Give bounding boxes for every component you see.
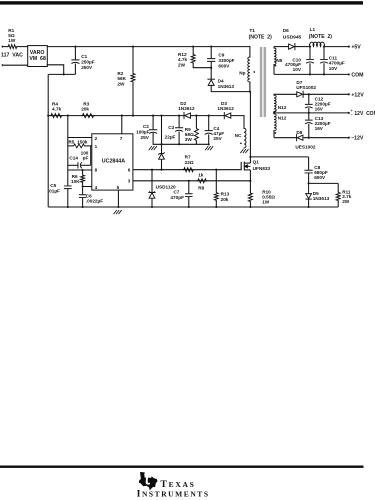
svg-text:470pF: 470pF xyxy=(170,195,184,200)
svg-text:C1: C1 xyxy=(81,54,87,59)
svg-text:R2: R2 xyxy=(117,71,123,76)
svg-text:250V: 250V xyxy=(81,65,93,70)
svg-text:1: 1 xyxy=(95,144,98,149)
resistor R10 xyxy=(248,192,252,202)
wire C1 upper xyxy=(74,47,76,60)
wire C8 to R11 xyxy=(309,182,339,184)
wire C2 upper xyxy=(152,116,154,130)
svg-text:1W: 1W xyxy=(262,199,270,204)
svg-text:–12V: –12V xyxy=(351,136,364,142)
wire C2 lower xyxy=(153,134,209,145)
capacitor C12 xyxy=(308,94,310,104)
svg-text:100µF: 100µF xyxy=(136,129,150,134)
core T1 bars xyxy=(260,47,263,117)
junction snubber tap xyxy=(249,156,251,158)
svg-text:C5: C5 xyxy=(50,183,56,188)
svg-text:C2: C2 xyxy=(143,124,149,129)
wire 12V COM rail xyxy=(274,112,349,114)
svg-text:COM: COM xyxy=(351,72,363,78)
wire bottom-left node xyxy=(48,73,75,75)
svg-text:N12: N12 xyxy=(278,105,287,110)
wire D6 to L1 xyxy=(295,46,310,48)
polarity dot N5 xyxy=(275,65,277,67)
junction C3 bottom xyxy=(178,143,180,145)
junction R9 top xyxy=(195,115,197,117)
wire AC input bottom xyxy=(3,64,28,66)
winding N5 xyxy=(273,47,275,48)
svg-text:56K: 56K xyxy=(117,76,126,81)
junction C11 bottom xyxy=(323,73,325,75)
transistor Q1 xyxy=(240,162,242,170)
wire D4 lower xyxy=(211,85,250,91)
wire ground rail xyxy=(48,206,338,208)
junction C10 bottom xyxy=(309,73,311,75)
svg-text:Np: Np xyxy=(239,71,245,76)
winding N12 upper xyxy=(273,93,275,96)
svg-text:1N3613: 1N3613 xyxy=(218,84,235,89)
terminal 12V COM xyxy=(348,112,350,114)
wire R10 upper xyxy=(249,181,251,192)
capacitor C8 xyxy=(305,170,312,173)
capacitor C9 xyxy=(208,59,215,62)
capacitor C13 xyxy=(308,113,310,120)
capacitor C10 xyxy=(309,47,311,60)
svg-text:(NOTE 2): (NOTE 2) xyxy=(249,35,273,41)
diode D3 xyxy=(223,113,225,119)
wire R11 upper xyxy=(337,183,339,191)
resistor R12 xyxy=(191,54,195,64)
resistor R13 xyxy=(215,170,217,192)
junction C8 bottom xyxy=(308,182,310,184)
svg-text:VM 68: VM 68 xyxy=(29,56,46,62)
wire L1 to +5V xyxy=(324,46,349,48)
svg-text:5: 5 xyxy=(117,185,120,190)
junction C6 gnd xyxy=(82,206,84,208)
junction pin5 gnd xyxy=(117,206,119,208)
svg-text:3300pF: 3300pF xyxy=(218,58,234,63)
capacitor C11 xyxy=(323,47,325,60)
junction C12 top xyxy=(308,93,310,95)
wire pin2 xyxy=(68,137,92,139)
junction USD1120 gnd xyxy=(151,206,153,208)
junction R2 top xyxy=(132,46,134,48)
svg-text:600V: 600V xyxy=(314,175,326,180)
polarity dot N12 upper xyxy=(275,110,277,112)
svg-text:N5: N5 xyxy=(276,58,282,63)
wire R2 lower xyxy=(132,83,134,116)
junction USD1120 top xyxy=(151,169,153,171)
wire C4 lower xyxy=(208,134,210,144)
svg-text:25V: 25V xyxy=(213,136,222,141)
capacitor C6 xyxy=(82,187,84,195)
resistor R2 xyxy=(131,73,135,83)
wire drain line xyxy=(249,92,251,164)
svg-text:R13: R13 xyxy=(221,191,230,196)
wire zener upper xyxy=(161,116,163,154)
svg-text:.0022µF: .0022µF xyxy=(86,199,103,204)
junction C4 top xyxy=(208,115,210,117)
junction primary bottom node xyxy=(249,91,251,93)
ground main rail xyxy=(114,210,122,213)
svg-text:R12: R12 xyxy=(178,52,187,57)
svg-text:117 VAC: 117 VAC xyxy=(1,53,23,59)
wire R12 lower xyxy=(193,64,211,68)
wire C9 upper xyxy=(210,47,212,59)
winding T1 primary Np xyxy=(248,57,250,82)
svg-text:12V COM: 12V COM xyxy=(354,111,375,117)
svg-text:4.7k: 4.7k xyxy=(52,106,62,111)
svg-text:USD945: USD945 xyxy=(283,35,302,41)
junction R2 bottom xyxy=(132,115,134,117)
junction R6 top xyxy=(82,169,84,171)
svg-text:2W: 2W xyxy=(342,199,350,204)
svg-text:TEXAS: TEXAS xyxy=(160,479,195,490)
capacitor C5 xyxy=(67,170,69,186)
junction D5 gnd xyxy=(308,206,310,208)
wire VM68 bottom output xyxy=(47,65,63,75)
wire C14 right vertical xyxy=(90,146,92,165)
resistor R5 xyxy=(68,145,73,147)
svg-text:2W: 2W xyxy=(117,82,125,87)
wire D7 to +12V xyxy=(303,93,348,95)
resistor R8 xyxy=(197,179,207,183)
polarity dot NC xyxy=(240,142,242,144)
wire comp node vertical xyxy=(67,116,69,170)
svg-text:R5 150k: R5 150k xyxy=(68,139,87,144)
junction zener tap xyxy=(160,115,162,117)
wire C3 lower xyxy=(178,132,180,145)
svg-text:10V: 10V xyxy=(293,67,302,72)
terminal +12V xyxy=(348,93,350,95)
svg-text:R8: R8 xyxy=(198,185,204,190)
svg-text:(NOTE 2): (NOTE 2) xyxy=(309,34,333,40)
svg-text:UFN833: UFN833 xyxy=(253,166,271,171)
svg-text:1N3612: 1N3612 xyxy=(217,106,234,111)
svg-text:2W: 2W xyxy=(178,63,186,68)
svg-text:D6: D6 xyxy=(283,28,289,33)
wire feedback rail xyxy=(48,115,184,117)
wire pin7 xyxy=(121,116,123,134)
svg-text:UES1002: UES1002 xyxy=(295,144,315,149)
diode D7 xyxy=(297,92,303,97)
svg-text:250µF: 250µF xyxy=(81,60,95,65)
resistor R6 xyxy=(82,170,84,175)
wire AC input top xyxy=(3,46,8,48)
svg-text:N12: N12 xyxy=(278,115,287,120)
wire left rail xyxy=(47,74,49,207)
wire C4 upper xyxy=(208,116,210,131)
resistor R3 xyxy=(82,114,95,118)
svg-text:.01µF: .01µF xyxy=(48,189,60,194)
wire zener lower xyxy=(161,159,163,170)
wire R9 lower xyxy=(195,141,197,144)
junction VM68 bottom node xyxy=(63,73,65,75)
svg-text:C3: C3 xyxy=(168,125,174,130)
junction R6 bottom xyxy=(82,185,84,187)
wire rail to NC xyxy=(231,116,244,129)
capacitor C7 xyxy=(188,181,190,194)
zener diode VR1 xyxy=(159,153,165,155)
resistor R7 xyxy=(183,168,194,172)
svg-text:D4: D4 xyxy=(218,78,224,83)
junction pin7 tap xyxy=(121,115,123,117)
svg-text:3W: 3W xyxy=(185,137,193,142)
wire R10 lower xyxy=(249,202,251,207)
diode D8 xyxy=(296,135,298,141)
diode USD1120 xyxy=(151,170,153,193)
wire pin4 xyxy=(83,186,92,188)
resistor R11 xyxy=(336,192,340,201)
svg-text:C9: C9 xyxy=(218,52,224,57)
junction C10 top xyxy=(309,46,311,48)
wire pin3 xyxy=(133,180,251,182)
resistor R9 xyxy=(194,128,198,142)
diode D2 xyxy=(183,113,185,119)
svg-text:10K: 10K xyxy=(71,179,80,184)
wire top rail xyxy=(47,46,250,48)
wire Q1 source xyxy=(249,170,251,181)
svg-text:10V: 10V xyxy=(329,66,338,71)
junction source node xyxy=(249,180,251,182)
wire primary lower xyxy=(249,82,251,92)
svg-text:20k: 20k xyxy=(221,197,229,202)
wire N5 top to D6 xyxy=(274,46,288,48)
diode D4 xyxy=(208,78,215,80)
bottom rule xyxy=(0,466,364,468)
junction zener bottom xyxy=(160,169,162,171)
svg-text:8: 8 xyxy=(95,168,98,173)
svg-text:UFS1002: UFS1002 xyxy=(296,85,316,90)
capacitor C14 xyxy=(68,164,78,166)
top border bar xyxy=(0,1,363,4)
terminal +5V xyxy=(348,46,350,48)
wire R12 upper xyxy=(192,47,194,54)
diode D6 xyxy=(289,44,295,49)
capacitor C2 xyxy=(150,130,157,134)
wire R2 upper xyxy=(132,47,134,73)
wire COM rail xyxy=(274,73,349,75)
wire C1 lower xyxy=(74,64,76,75)
wire N12b bottom xyxy=(274,137,297,139)
winding N12 lower xyxy=(273,112,275,115)
svg-text:C7: C7 xyxy=(173,189,179,194)
capacitor C1 xyxy=(72,60,79,64)
terminal COM xyxy=(348,73,350,75)
inductor L1 xyxy=(310,42,325,47)
svg-text:4: 4 xyxy=(95,185,98,190)
svg-text:7: 7 xyxy=(120,136,123,141)
junction zener mid xyxy=(160,143,162,145)
svg-text:600V: 600V xyxy=(218,63,230,68)
polarity dot N12 lower xyxy=(275,132,277,134)
op-amp U1 UC2844A box xyxy=(92,134,133,190)
junction C7 top xyxy=(188,180,190,182)
junction center tap xyxy=(273,112,275,114)
junction C12 bottom xyxy=(308,112,310,114)
svg-text:22Ω: 22Ω xyxy=(185,160,194,165)
resistor R4 xyxy=(50,114,63,118)
svg-text:D5: D5 xyxy=(313,191,319,196)
svg-text:1W: 1W xyxy=(8,38,16,43)
svg-text:2: 2 xyxy=(95,136,98,141)
svg-text:UC2844A: UC2844A xyxy=(102,159,125,165)
terminal -12V xyxy=(348,137,350,139)
wire R11 lower xyxy=(337,201,339,207)
wire C9 lower xyxy=(210,62,212,79)
svg-text:NC: NC xyxy=(235,133,242,138)
rectifier U-VM68 box xyxy=(28,46,48,67)
junction C5 gnd xyxy=(67,206,69,208)
svg-text:16V: 16V xyxy=(315,126,324,131)
svg-text:1N3613: 1N3613 xyxy=(313,196,330,201)
wire C3 upper xyxy=(178,116,180,128)
wire C8 upper xyxy=(308,157,310,170)
svg-text:–: – xyxy=(351,112,353,116)
resistor R1 xyxy=(8,45,18,49)
junction C7 gnd xyxy=(188,206,190,208)
svg-text:+12V: +12V xyxy=(351,92,364,98)
junction C11 top xyxy=(323,46,325,48)
junction R13 top xyxy=(215,169,217,171)
wire pin6 out xyxy=(133,169,241,171)
junction C9-R12 xyxy=(210,67,212,69)
junction R12 top xyxy=(192,46,194,48)
svg-text:1k: 1k xyxy=(198,172,204,177)
wire C8 lower xyxy=(308,173,310,183)
svg-text:T1: T1 xyxy=(249,28,255,33)
junction C9 top xyxy=(210,46,212,48)
wire N12a top xyxy=(274,93,297,95)
junction R4-R5 node xyxy=(67,115,69,117)
capacitor C4 xyxy=(205,131,212,135)
svg-text:6: 6 xyxy=(128,168,131,173)
svg-text:25V: 25V xyxy=(141,135,150,140)
svg-text:4.7k: 4.7k xyxy=(178,57,188,62)
svg-text:D8: D8 xyxy=(296,130,302,135)
junction R10 gnd xyxy=(249,206,251,208)
wire snubber top xyxy=(250,156,308,158)
wire primary top corner xyxy=(249,47,251,57)
svg-text:C14: C14 xyxy=(69,156,78,161)
ground C2 xyxy=(149,146,157,149)
svg-text:Q1: Q1 xyxy=(253,160,260,165)
junction C1 top xyxy=(74,46,76,48)
junction C2 tap xyxy=(152,115,154,117)
svg-text:3: 3 xyxy=(128,178,131,183)
svg-text:INSTRUMENTS: INSTRUMENTS xyxy=(137,489,210,500)
TI logo Texas glyph xyxy=(139,472,158,490)
wire D8 to -12V xyxy=(304,137,349,139)
polarity dot Np xyxy=(253,71,255,73)
wire pin8 xyxy=(68,169,92,171)
junction R4 left xyxy=(47,115,49,117)
svg-text:+5V: +5V xyxy=(351,45,361,51)
winding NC xyxy=(244,128,246,148)
ground C4 xyxy=(205,147,213,150)
wire R9 upper xyxy=(195,116,197,128)
junction R13 gnd xyxy=(215,206,217,208)
wire pin5 xyxy=(117,190,119,207)
svg-text:pF: pF xyxy=(83,156,89,161)
diode D5 xyxy=(308,183,310,193)
capacitor C3 xyxy=(176,128,183,132)
junction C13 bottom xyxy=(308,137,310,139)
svg-text:1N3612: 1N3612 xyxy=(178,106,195,111)
svg-text:L1: L1 xyxy=(310,27,316,32)
svg-text:16V: 16V xyxy=(315,107,324,112)
junction C4 bottom xyxy=(208,143,210,145)
junction C3 tap xyxy=(178,115,180,117)
wire R1 to VM68 xyxy=(18,46,28,48)
svg-text:20k: 20k xyxy=(81,106,89,111)
ground NC xyxy=(241,149,249,152)
wire rail D2 to C4 xyxy=(191,115,225,117)
svg-text:22µF: 22µF xyxy=(165,135,176,140)
